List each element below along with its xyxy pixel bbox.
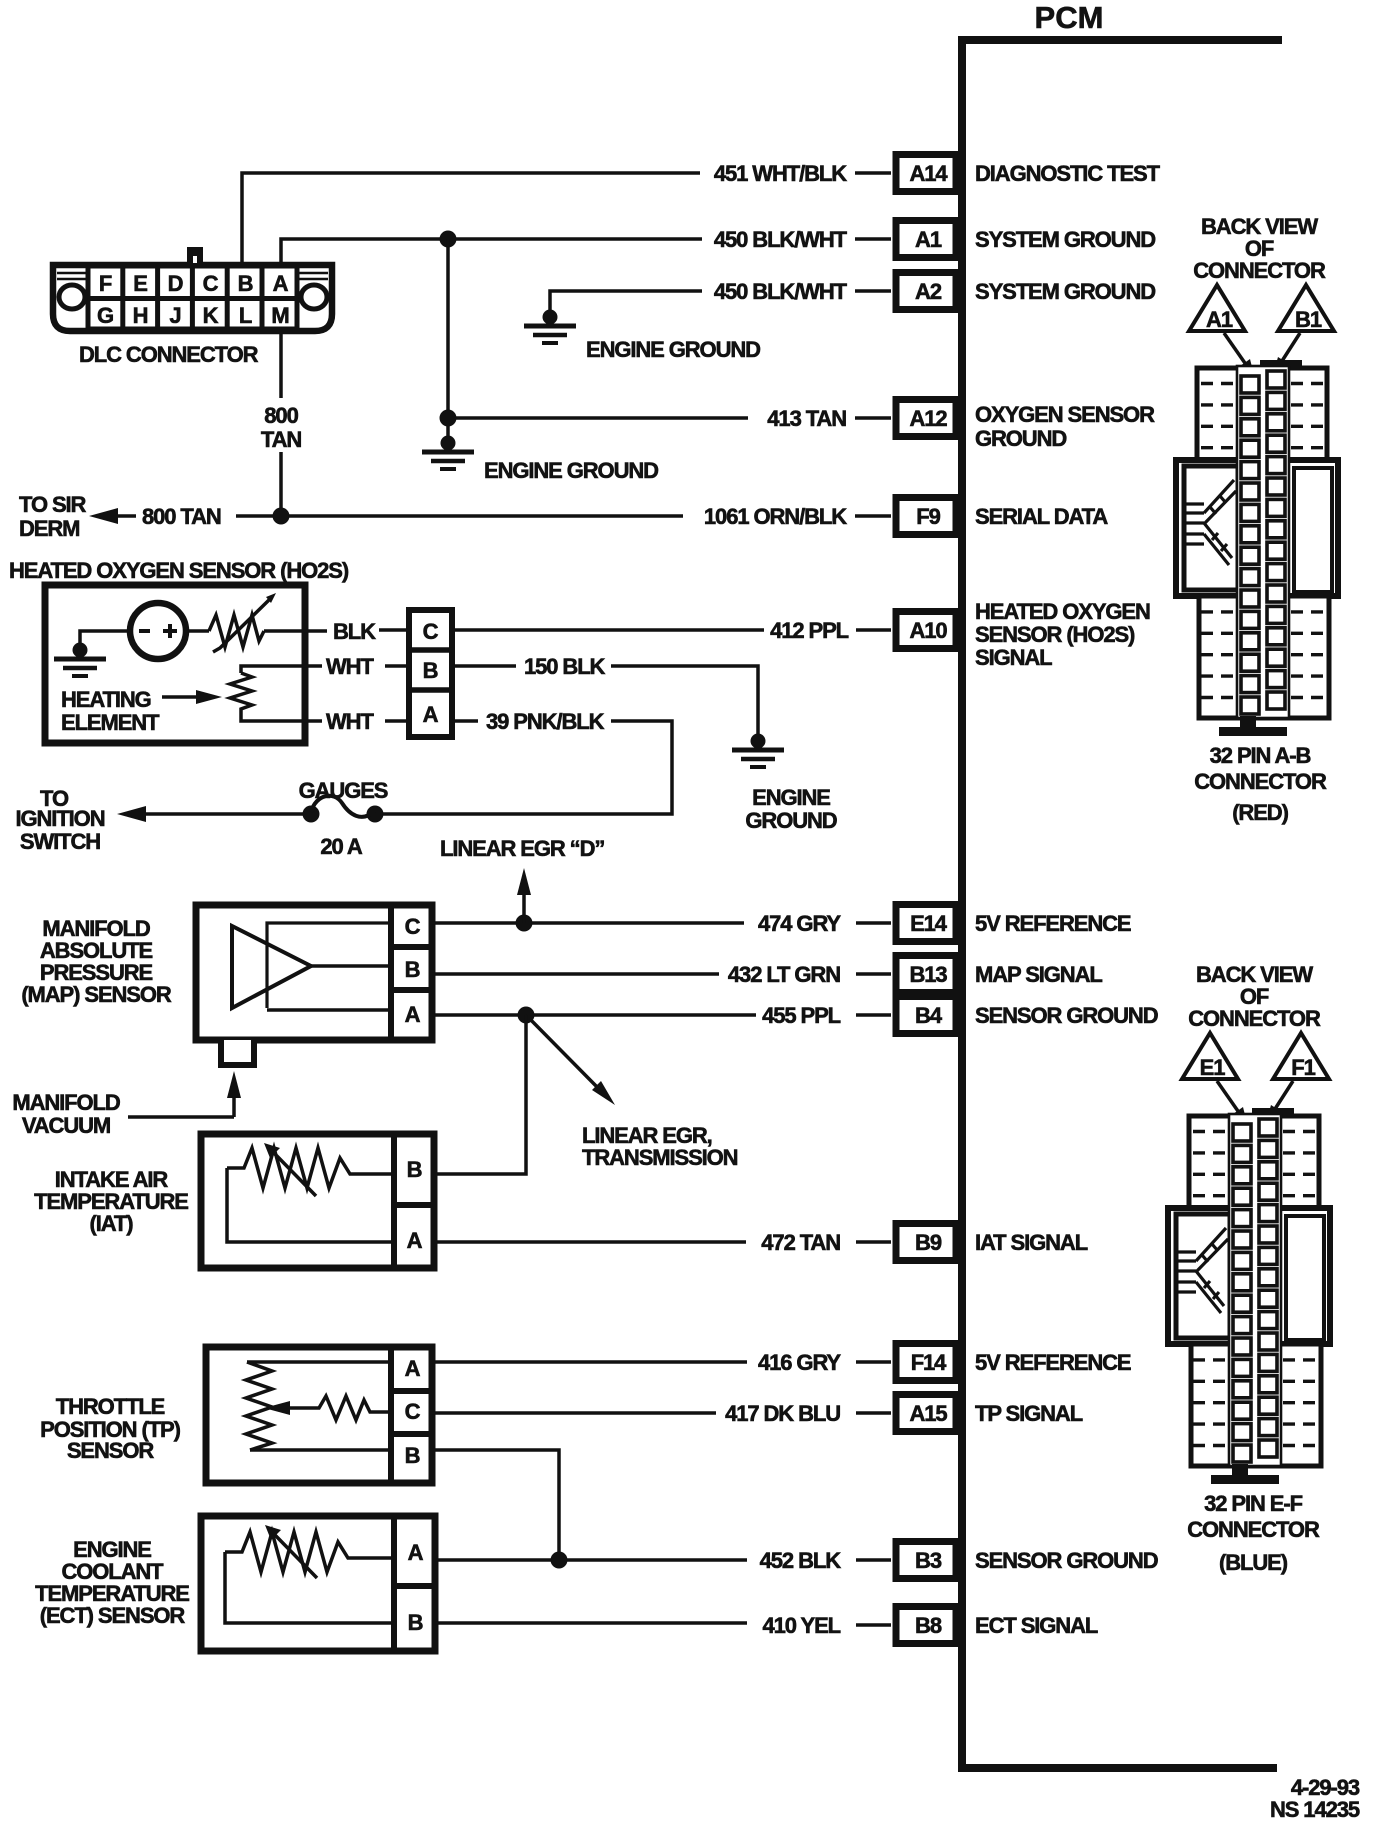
svg-text:B: B — [405, 1443, 420, 1468]
footer date code — [1270, 1775, 1360, 1822]
pin A14 — [896, 155, 956, 192]
wire 410 YEL to B8 — [435, 1623, 891, 1625]
svg-text:32 PIN E-F: 32 PIN E-F — [1204, 1491, 1302, 1516]
svg-text:NS 14235: NS 14235 — [1270, 1797, 1360, 1822]
pin F14 — [896, 1344, 956, 1381]
svg-text:THROTTLE: THROTTLE — [56, 1394, 165, 1419]
TO IGNITION SWITCH caption — [16, 786, 105, 854]
manifold vacuum arrow — [227, 1071, 241, 1117]
32 pin E-F connector — [1168, 1111, 1330, 1484]
junction on 450 line — [440, 231, 457, 248]
arrow to LINEAR EGR TRANSMISSION — [526, 1015, 615, 1105]
pin A2 — [896, 273, 956, 310]
svg-text:450 BLK/WHT: 450 BLK/WHT — [714, 279, 848, 304]
arrow to SIR DERM — [89, 508, 118, 524]
svg-text:GAUGES: GAUGES — [299, 778, 388, 803]
MAP internal amplifier U1 — [232, 923, 388, 1010]
pin F9 — [896, 498, 956, 535]
svg-text:HEATED OXYGEN: HEATED OXYGEN — [975, 599, 1150, 624]
wire 450 BLK/WHT to A1 — [281, 239, 891, 262]
svg-text:TAN: TAN — [261, 427, 301, 452]
svg-text:C: C — [405, 914, 421, 939]
svg-text:J: J — [169, 303, 180, 328]
variable resistor R (sensing element) — [186, 593, 327, 652]
MAP vacuum port tab — [221, 1040, 254, 1065]
svg-text:L: L — [239, 303, 252, 328]
svg-text:ENGINE: ENGINE — [752, 785, 830, 810]
wire 455 PPL to B4 — [432, 1013, 891, 1017]
svg-text:DERM: DERM — [19, 516, 79, 541]
junction 413/ground drop — [440, 410, 457, 427]
svg-text:SIGNAL: SIGNAL — [975, 645, 1052, 670]
BACK VIEW OF CONNECTOR caption (E-F) — [1188, 962, 1321, 1031]
LINEAR EGR TRANSMISSION caption — [582, 1123, 738, 1170]
svg-text:PCM: PCM — [1035, 0, 1104, 35]
callout triangle F1 — [1273, 1033, 1329, 1080]
svg-text:SYSTEM GROUND: SYSTEM GROUND — [975, 227, 1155, 252]
svg-text:CONNECTOR: CONNECTOR — [1188, 1006, 1321, 1031]
DLC connector — [53, 247, 332, 331]
svg-text:B3: B3 — [915, 1548, 942, 1573]
IAT thermistor RT1 — [227, 1143, 394, 1242]
wire 450 BLK/WHT to A2 — [550, 291, 891, 310]
wire cell to internal ground — [80, 631, 130, 645]
svg-text:413 TAN: 413 TAN — [767, 406, 846, 431]
svg-text:OXYGEN SENSOR: OXYGEN SENSOR — [975, 402, 1155, 427]
svg-text:F: F — [99, 271, 112, 296]
svg-text:416 GRY: 416 GRY — [758, 1350, 841, 1375]
wire 472 TAN to B9 — [434, 1240, 891, 1244]
svg-text:SERIAL DATA: SERIAL DATA — [975, 504, 1108, 529]
svg-text:SENSOR GROUND: SENSOR GROUND — [975, 1003, 1158, 1028]
TO SIR DERM caption — [19, 492, 87, 541]
svg-text:472 TAN: 472 TAN — [761, 1230, 840, 1255]
engine ground (x448) — [422, 436, 474, 470]
wire WHT to B — [385, 664, 407, 668]
pin E14 — [896, 905, 956, 942]
arrow to ignition switch — [117, 806, 146, 822]
TP potentiometer — [246, 1362, 391, 1450]
svg-text:E1: E1 — [1200, 1055, 1226, 1080]
svg-text:(IAT): (IAT) — [90, 1211, 134, 1236]
net label OXYGEN SENSOR GROUND — [975, 402, 1155, 451]
callout arrow E1 — [1217, 1081, 1247, 1123]
svg-text:C: C — [423, 619, 439, 644]
pin B9 — [896, 1224, 956, 1261]
svg-text:F9: F9 — [916, 504, 940, 529]
32 PIN E-F caption — [1187, 1491, 1320, 1542]
svg-text:H: H — [133, 303, 148, 328]
svg-text:B4: B4 — [915, 1003, 943, 1028]
svg-text:F1: F1 — [1291, 1055, 1315, 1080]
svg-text:BLK: BLK — [333, 619, 376, 644]
svg-text:MAP SIGNAL: MAP SIGNAL — [975, 962, 1102, 987]
pin A12 — [896, 400, 956, 437]
junction sensor ground — [518, 1007, 535, 1024]
junction 800 TAN / serial — [273, 508, 290, 525]
ECT caption — [35, 1537, 189, 1628]
svg-text:B: B — [408, 1610, 423, 1635]
svg-text:B: B — [407, 1157, 422, 1182]
svg-text:K: K — [203, 303, 219, 328]
pin A15 — [896, 1395, 956, 1432]
pin A1 — [896, 221, 956, 258]
wire 413 TAN to A12 — [448, 416, 891, 420]
svg-text:450 BLK/WHT: 450 BLK/WHT — [714, 227, 848, 252]
junction TP B / ECT A — [551, 1552, 568, 1569]
svg-text:MANIFOLD: MANIFOLD — [12, 1090, 120, 1115]
svg-text:1061 ORN/BLK: 1061 ORN/BLK — [704, 504, 847, 529]
svg-text:HEATING: HEATING — [61, 687, 151, 712]
svg-text:(BLUE): (BLUE) — [1219, 1550, 1288, 1575]
svg-text:D: D — [168, 271, 183, 296]
pin B4 — [896, 997, 956, 1034]
svg-text:32 PIN A-B: 32 PIN A-B — [1210, 743, 1311, 768]
engine ground (150 BLK) — [732, 734, 784, 768]
svg-text:M: M — [271, 303, 288, 328]
svg-text:20 A: 20 A — [320, 834, 362, 859]
svg-text:IAT SIGNAL: IAT SIGNAL — [975, 1230, 1088, 1255]
svg-text:455 PPL: 455 PPL — [762, 1003, 841, 1028]
svg-text:ENGINE GROUND: ENGINE GROUND — [484, 458, 658, 483]
svg-text:SENSOR (HO2S): SENSOR (HO2S) — [975, 622, 1135, 647]
IAT caption — [34, 1167, 188, 1236]
svg-text:CONNECTOR: CONNECTOR — [1194, 769, 1327, 794]
HO2S connector C-B-A — [409, 610, 452, 737]
svg-text:A: A — [408, 1540, 424, 1565]
pin B3 — [896, 1542, 956, 1579]
callout triangle E1 — [1182, 1033, 1238, 1080]
net label HEATED OXYGEN SENSOR SIGNAL — [975, 599, 1150, 670]
svg-text:C: C — [203, 271, 219, 296]
callout arrow B1 — [1274, 333, 1300, 371]
svg-text:C: C — [405, 1399, 421, 1424]
svg-text:TP SIGNAL: TP SIGNAL — [975, 1401, 1083, 1426]
svg-text:GROUND: GROUND — [745, 808, 836, 833]
TP caption — [40, 1394, 180, 1463]
svg-text:CONNECTOR: CONNECTOR — [1193, 258, 1326, 283]
engine ground (A2) — [524, 310, 576, 344]
wire 474 GRY to E14 — [432, 921, 891, 925]
svg-text:A: A — [273, 271, 289, 296]
svg-text:B1: B1 — [1295, 307, 1322, 332]
svg-text:150 BLK: 150 BLK — [524, 654, 606, 679]
svg-text:DLC CONNECTOR: DLC CONNECTOR — [79, 342, 259, 367]
svg-text:B: B — [423, 658, 438, 683]
svg-text:39 PNK/BLK: 39 PNK/BLK — [486, 709, 605, 734]
svg-text:451 WHT/BLK: 451 WHT/BLK — [714, 161, 847, 186]
svg-text:A: A — [407, 1228, 423, 1253]
32 PIN A-B caption — [1194, 743, 1327, 794]
HO2S box — [45, 585, 305, 743]
svg-text:DIAGNOSTIC TEST: DIAGNOSTIC TEST — [975, 161, 1161, 186]
svg-text:SENSOR GROUND: SENSOR GROUND — [975, 1548, 1158, 1573]
callout arrow F1 — [1267, 1081, 1293, 1119]
svg-text:SYSTEM GROUND: SYSTEM GROUND — [975, 279, 1155, 304]
wire 800 TAN from DLC M — [279, 334, 283, 516]
wire 150 BLK to engine ground — [452, 666, 758, 734]
svg-text:ELEMENT: ELEMENT — [61, 710, 160, 735]
svg-text:B9: B9 — [915, 1230, 942, 1255]
svg-text:(RED): (RED) — [1232, 800, 1288, 825]
svg-text:TRANSMISSION: TRANSMISSION — [582, 1145, 738, 1170]
wire 416 GRY to F14 — [432, 1360, 891, 1364]
wire 39 PNK/BLK to fuse — [143, 721, 672, 814]
svg-text:VACUUM: VACUUM — [22, 1113, 110, 1138]
wire 412 PPL to A10 — [452, 628, 891, 632]
fuse GAUGES 20A — [303, 796, 384, 823]
svg-text:452 BLK: 452 BLK — [760, 1548, 842, 1573]
MANIFOLD VACUUM caption — [12, 1090, 120, 1138]
ECT sensor box — [201, 1516, 435, 1651]
wire BLK to C — [379, 628, 407, 632]
label 800 TAN vertical — [261, 403, 301, 452]
ENGINE GROUND caption 3 — [745, 785, 836, 833]
svg-text:A14: A14 — [909, 161, 948, 186]
svg-text:800: 800 — [264, 403, 298, 428]
wire 417 DK BLU to A15 — [432, 1411, 891, 1415]
svg-text:B8: B8 — [915, 1613, 942, 1638]
svg-text:412 PPL: 412 PPL — [770, 618, 849, 643]
svg-text:(MAP) SENSOR: (MAP) SENSOR — [21, 982, 172, 1007]
svg-text:A: A — [405, 1356, 421, 1381]
svg-text:G: G — [97, 303, 113, 328]
callout triangle A1 — [1189, 285, 1245, 332]
callout arrow A1 — [1224, 333, 1254, 375]
svg-text:A12: A12 — [909, 406, 947, 431]
pin B13 — [896, 956, 956, 993]
svg-text:E: E — [133, 271, 147, 296]
svg-text:A: A — [405, 1002, 421, 1027]
svg-text:ENGINE GROUND: ENGINE GROUND — [586, 337, 760, 362]
junction LINEAR EGR D — [516, 915, 533, 932]
svg-text:B: B — [238, 271, 253, 296]
svg-text:CONNECTOR: CONNECTOR — [1187, 1517, 1320, 1542]
PCM boundary — [958, 36, 1282, 1768]
svg-text:A10: A10 — [909, 618, 947, 643]
wire serial data 1061 ORN/BLK to F9 — [112, 514, 891, 518]
svg-text:474 GRY: 474 GRY — [758, 911, 841, 936]
ECT thermistor RT2 — [225, 1525, 394, 1623]
HEATING ELEMENT caption — [61, 687, 160, 735]
svg-text:410 YEL: 410 YEL — [762, 1613, 840, 1638]
callout triangle B1 — [1278, 285, 1334, 332]
TP sensor box — [206, 1347, 432, 1483]
wire engine ground drop x448 — [446, 239, 450, 443]
pin B8 — [896, 1607, 956, 1644]
svg-text:A1: A1 — [915, 227, 942, 252]
svg-text:F14: F14 — [911, 1350, 947, 1375]
svg-text:E14: E14 — [910, 911, 948, 936]
svg-text:ECT SIGNAL: ECT SIGNAL — [975, 1613, 1098, 1638]
arrow up LINEAR EGR D — [517, 868, 531, 923]
svg-text:5V REFERENCE: 5V REFERENCE — [975, 1350, 1131, 1375]
svg-text:A15: A15 — [909, 1401, 947, 1426]
svg-text:SWITCH: SWITCH — [20, 829, 100, 854]
wire 432 LT GRN to B13 — [432, 972, 891, 976]
wire vacuum caption to arrow — [128, 1115, 234, 1119]
pin A10 — [896, 612, 956, 649]
svg-text:A2: A2 — [915, 279, 942, 304]
svg-text:800 TAN: 800 TAN — [142, 504, 221, 529]
MAP SENSOR caption — [21, 916, 172, 1007]
svg-text:5V REFERENCE: 5V REFERENCE — [975, 911, 1131, 936]
svg-text:A1: A1 — [1206, 307, 1233, 332]
BACK VIEW OF CONNECTOR caption (A-B) — [1193, 214, 1326, 283]
HO2S sensor cell — [130, 603, 186, 659]
svg-text:A: A — [423, 702, 439, 727]
svg-text:WHT: WHT — [326, 709, 374, 734]
MAP sensor box — [196, 905, 432, 1040]
svg-text:TO SIR: TO SIR — [19, 492, 87, 517]
heating element pointer arrow — [162, 690, 222, 704]
svg-text:SENSOR: SENSOR — [67, 1438, 155, 1463]
32 pin A-B connector — [1176, 363, 1338, 736]
wire 452 BLK to B3 — [435, 1558, 891, 1562]
svg-text:432 LT GRN: 432 LT GRN — [728, 962, 840, 987]
svg-text:LINEAR EGR “D”: LINEAR EGR “D” — [440, 836, 604, 861]
svg-text:B: B — [405, 957, 420, 982]
IAT sensor box — [201, 1134, 434, 1268]
svg-text:HEATED OXYGEN SENSOR (HO2S): HEATED OXYGEN SENSOR (HO2S) — [9, 558, 349, 583]
wire TP B to sensor ground junction — [432, 1450, 559, 1560]
svg-text:IGNITION: IGNITION — [16, 806, 105, 831]
internal ground — [54, 643, 106, 677]
svg-text:WHT: WHT — [326, 654, 374, 679]
wire 451 WHT/BLK to A14 — [242, 173, 891, 262]
svg-text:B13: B13 — [909, 962, 947, 987]
heating element resistor — [230, 666, 322, 721]
svg-text:GROUND: GROUND — [975, 426, 1066, 451]
svg-text:417 DK BLU: 417 DK BLU — [725, 1401, 840, 1426]
svg-text:(ECT) SENSOR: (ECT) SENSOR — [40, 1603, 186, 1628]
wire WHT to A — [385, 719, 407, 723]
wire sensor ground drop to IAT B — [437, 1015, 526, 1174]
